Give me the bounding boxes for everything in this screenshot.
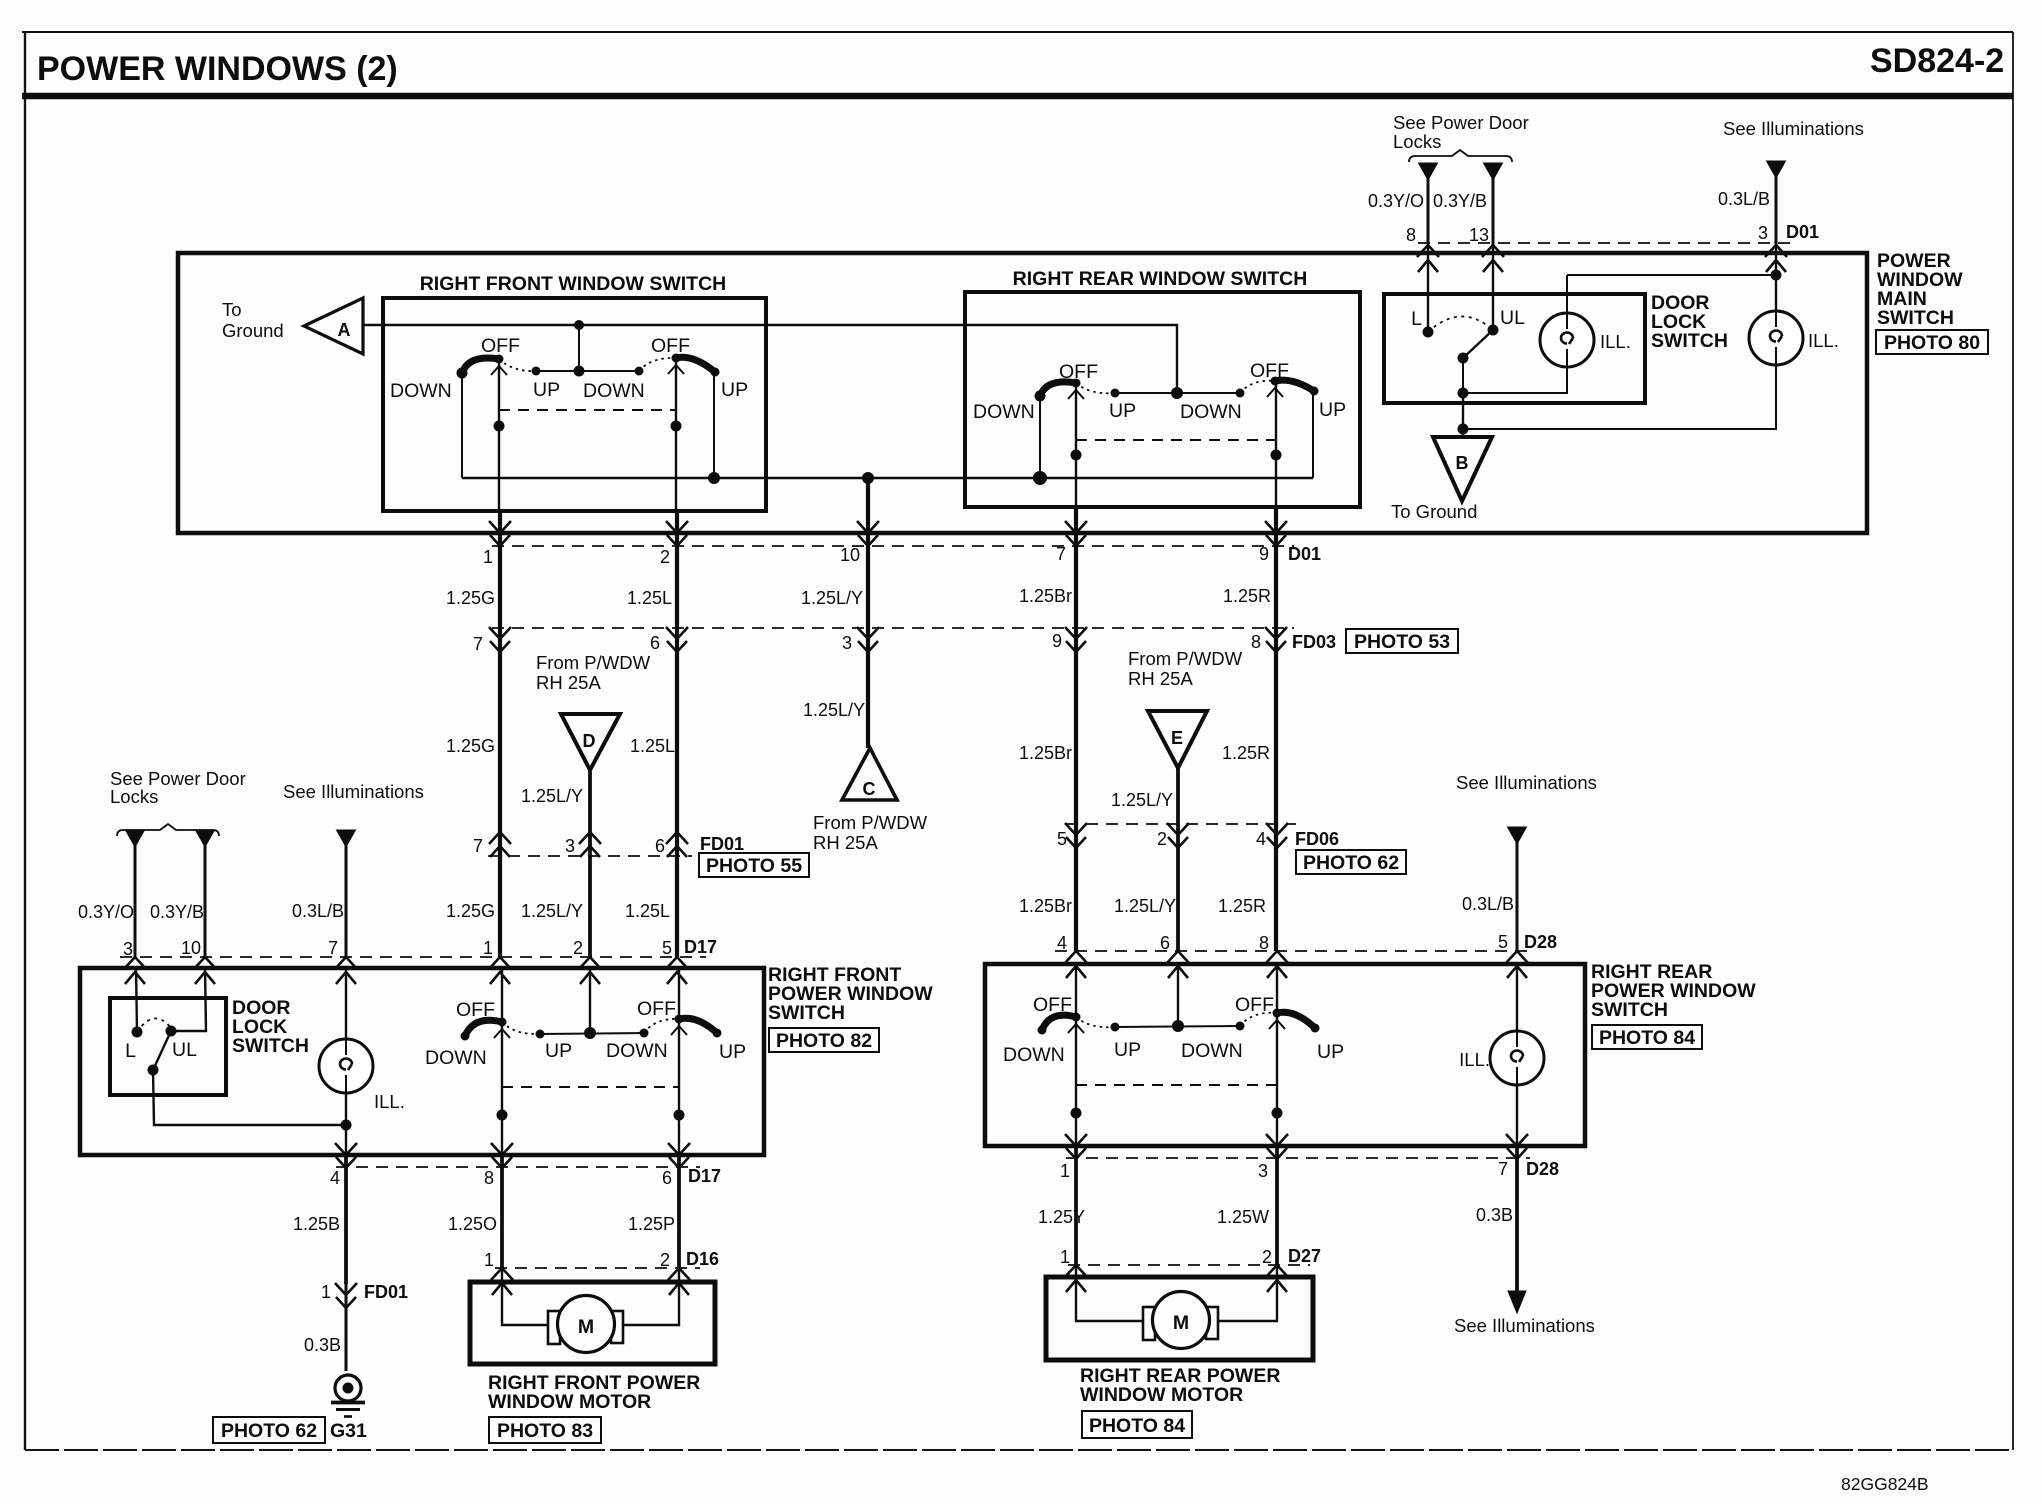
- svg-text:1.25L: 1.25L: [630, 736, 675, 756]
- wire pin2 inside box: [675, 358, 677, 511]
- right front power window switch box: [80, 968, 764, 1155]
- svg-text:D28: D28: [1526, 1159, 1559, 1179]
- junction triangle E: [1148, 711, 1207, 768]
- bottom rail both switches: [462, 477, 1313, 479]
- node ill feed / pin3: [1771, 270, 1782, 281]
- svg-text:0.3Y/B: 0.3Y/B: [1433, 191, 1487, 211]
- svg-text:6: 6: [655, 836, 665, 856]
- svg-text:OFF: OFF: [637, 998, 676, 1020]
- motor M2 brushes: [1143, 1307, 1155, 1340]
- wire OFF2 to pin 6: [678, 1019, 680, 1155]
- wire 0.3L/B to D17 pin 7: [345, 843, 348, 957]
- svg-text:OFF: OFF: [456, 999, 495, 1021]
- svg-text:82GG824B: 82GG824B: [1841, 1474, 1929, 1494]
- wire lamp1 top to ill feed: [1566, 275, 1568, 313]
- D27 chevrons: [1065, 1265, 1087, 1292]
- D28 top chevrons: [1065, 951, 1087, 978]
- RF window switch: UP contact 1: [532, 367, 541, 376]
- svg-text:2: 2: [1157, 829, 1167, 849]
- svg-text:D28: D28: [1524, 932, 1557, 952]
- lever end dot: [461, 1032, 470, 1041]
- PHOTO 53 box: [1346, 629, 1458, 653]
- mechanical link dashed RRPW: [1076, 1084, 1277, 1086]
- L contact (lower): [132, 1027, 143, 1038]
- svg-text:3: 3: [1758, 223, 1768, 243]
- PHOTO 82 box: [769, 1028, 879, 1052]
- svg-text:1: 1: [1060, 1247, 1070, 1267]
- wire 0.3Y/B to D01 pin 13: [1492, 176, 1495, 246]
- contact arrow 1: [491, 366, 507, 375]
- svg-text:1.25G: 1.25G: [446, 588, 495, 608]
- lever rest arc PW2 (dotted): [644, 1019, 679, 1033]
- mechanical link dashed RR: [1076, 439, 1276, 441]
- feed arrow mid right: [1508, 827, 1527, 844]
- wire pivot to lamp1: [1463, 358, 1567, 393]
- power window main switch outer box: [178, 253, 1867, 533]
- svg-text:7: 7: [473, 634, 483, 654]
- svg-text:ILL.: ILL.: [374, 1091, 405, 1112]
- svg-text:From P/WDW: From P/WDW: [1128, 648, 1243, 669]
- PW switch: OFF contact 2: [675, 1015, 684, 1024]
- svg-text:ILL.: ILL.: [1600, 331, 1631, 352]
- wire D01 pin 13 to UL contact: [1492, 246, 1494, 330]
- lever rest arc RR2 (dotted): [1240, 381, 1275, 393]
- svg-text:2: 2: [660, 547, 670, 567]
- svg-text:SWITCH: SWITCH: [1591, 999, 1668, 1021]
- link line between contacts: [536, 370, 639, 372]
- RR PW switch: OFF contact 2: [1273, 1009, 1282, 1018]
- svg-text:4: 4: [330, 1168, 340, 1188]
- ill lamp (lower right): [1490, 1031, 1544, 1085]
- LF power window switch: wire pin1 to OFF1: [501, 967, 503, 1022]
- connector row D28 (bottom) dashed: [1066, 1157, 1530, 1159]
- svg-text:OFF: OFF: [481, 335, 520, 357]
- lever rest arc RRPW1 (dotted): [1076, 1017, 1115, 1027]
- svg-text:1.25L/Y: 1.25L/Y: [1111, 790, 1173, 810]
- node on pin1 wire (RR): [1071, 1108, 1082, 1119]
- wire 0.3Y/O to D17 pin 3: [134, 843, 137, 957]
- D17 top chevrons: [124, 957, 146, 984]
- ill lamp 1 (main switch): [1540, 313, 1594, 367]
- svg-text:8: 8: [1251, 632, 1261, 652]
- svg-text:PHOTO 62: PHOTO 62: [221, 1420, 317, 1442]
- svg-text:1.25R: 1.25R: [1223, 586, 1271, 606]
- node below pivot: [1458, 388, 1469, 399]
- svg-text:3: 3: [1258, 1161, 1268, 1181]
- wire 1.25B: [344, 1155, 348, 1284]
- lever end dot RR: [1310, 387, 1319, 396]
- svg-text:D27: D27: [1288, 1246, 1321, 1266]
- svg-text:UL: UL: [1500, 307, 1525, 329]
- svg-text:OFF: OFF: [651, 335, 690, 357]
- svg-text:D16: D16: [686, 1249, 719, 1269]
- svg-text:DOWN: DOWN: [1181, 1040, 1243, 1062]
- ground G31 symbol: [331, 1375, 365, 1417]
- lever rest arc RR1 (dotted): [1076, 383, 1115, 393]
- lock arc (dashed): [1428, 316, 1493, 332]
- svg-text:6: 6: [662, 1168, 672, 1188]
- RR window switch: DOWN contact 1: [1035, 391, 1046, 402]
- RR window switch: DOWN contact 2: [1236, 389, 1245, 398]
- RF window switch: lever 2 (thick): [676, 357, 715, 372]
- ground triangle B: [1433, 437, 1492, 501]
- door lock switch box (lower): [110, 998, 226, 1095]
- svg-text:1.25R: 1.25R: [1218, 896, 1266, 916]
- lever rest arc PW1 (dotted): [502, 1022, 540, 1034]
- right rear window switch box: [965, 292, 1360, 507]
- svg-text:D01: D01: [1786, 222, 1819, 242]
- svg-text:UP: UP: [1317, 1041, 1344, 1063]
- svg-text:PHOTO 83: PHOTO 83: [497, 1420, 593, 1442]
- feed arrow (0.3Y/O): [1419, 163, 1438, 180]
- RR window switch: OFF contact 1: [1072, 379, 1081, 388]
- page border top: [22, 31, 2013, 33]
- svg-text:ILL.: ILL.: [1459, 1049, 1490, 1070]
- node on pin3 wire (RR): [1272, 1108, 1283, 1119]
- lever end dot PW2: [713, 1029, 722, 1038]
- svg-text:DOWN: DOWN: [1180, 401, 1242, 423]
- RR PW switch: wire pin8 to OFF2: [1276, 964, 1278, 1013]
- svg-text:To Ground: To Ground: [1391, 501, 1477, 522]
- wire ill feed bus: [1567, 274, 1776, 276]
- svg-text:See Illuminations: See Illuminations: [1723, 118, 1864, 139]
- riser from DOWN contact 1: [461, 373, 463, 478]
- svg-text:1.25Y: 1.25Y: [1038, 1207, 1085, 1227]
- wire pin5 to ill lamp: [1516, 964, 1518, 1031]
- wire D01 pin 8 to L contact: [1427, 246, 1429, 332]
- svg-text:M: M: [578, 1316, 594, 1338]
- svg-text:0.3B: 0.3B: [1476, 1205, 1513, 1225]
- svg-text:E: E: [1171, 728, 1183, 748]
- svg-text:ILL.: ILL.: [1808, 330, 1839, 351]
- motor M1 feed wires: [502, 1268, 679, 1325]
- riser lever end RR2 to rail: [1312, 391, 1314, 478]
- motor M1: [558, 1296, 615, 1353]
- svg-text:OFF: OFF: [1235, 994, 1274, 1016]
- svg-text:0.3Y/O: 0.3Y/O: [78, 902, 134, 922]
- mechanical link dashed: [499, 409, 676, 411]
- svg-text:Locks: Locks: [1393, 131, 1441, 152]
- contact arrow RR1: [1068, 390, 1084, 399]
- title separator bar: [22, 93, 2013, 100]
- svg-text:1.25L/Y: 1.25L/Y: [521, 786, 583, 806]
- svg-text:PHOTO 53: PHOTO 53: [1354, 631, 1450, 653]
- svg-text:3: 3: [123, 939, 133, 959]
- svg-text:5: 5: [1057, 829, 1067, 849]
- PW switch: DOWN contact 2: [640, 1029, 649, 1038]
- svg-text:1.25Br: 1.25Br: [1019, 896, 1072, 916]
- wire 1.25L vertical: [675, 511, 679, 957]
- svg-text:OFF: OFF: [1059, 361, 1098, 383]
- svg-text:POWER WINDOWS (2): POWER WINDOWS (2): [37, 50, 398, 88]
- svg-text:1: 1: [321, 1282, 331, 1302]
- svg-text:L: L: [125, 1040, 136, 1062]
- wire 1.25O: [500, 1155, 504, 1268]
- svg-text:UP: UP: [1109, 400, 1136, 422]
- wire 1.25L/Y vertical (to C): [866, 478, 870, 748]
- connector row FD01 dashed: [488, 855, 692, 857]
- ground triangle A: [304, 298, 363, 354]
- svg-text:1.25G: 1.25G: [446, 736, 495, 756]
- connector chevrons D01 top: [1417, 245, 1439, 272]
- wire 1.25P: [677, 1155, 681, 1268]
- svg-text:2: 2: [660, 1250, 670, 1270]
- svg-text:FD01: FD01: [364, 1282, 408, 1302]
- wire pin7 inside box: [1075, 383, 1077, 507]
- motor M2: [1153, 1292, 1210, 1349]
- connector row D17 (top) dashed: [120, 956, 706, 958]
- lever rest arc RRPW2 (dotted): [1240, 1013, 1277, 1026]
- feed arrow 0.3Y/B (left): [196, 830, 215, 847]
- svg-text:9: 9: [1259, 544, 1269, 564]
- svg-text:DOWN: DOWN: [973, 401, 1035, 423]
- RF window switch: OFF contact 1: [495, 355, 504, 364]
- right front power window motor box: [470, 1282, 715, 1364]
- wire 1.25L/Y from D: [588, 770, 592, 957]
- RF window switch: DOWN contact 1: [457, 368, 468, 379]
- riser RR DOWN1 to rail: [1039, 396, 1041, 478]
- RR PW switch: wire pin6 to center: [1177, 964, 1179, 1026]
- UL contact (lower): [166, 1026, 177, 1037]
- svg-text:PHOTO 55: PHOTO 55: [706, 855, 802, 877]
- svg-text:1: 1: [483, 938, 493, 958]
- lever pivot node (lower): [148, 1065, 159, 1076]
- FD06 chevrons: [1065, 823, 1087, 848]
- svg-text:7: 7: [1056, 544, 1066, 564]
- page border bottom: [25, 1449, 2013, 1451]
- svg-text:1.25Br: 1.25Br: [1019, 743, 1072, 763]
- svg-text:See Power Door: See Power Door: [1393, 112, 1529, 133]
- svg-text:0.3L/B: 0.3L/B: [1718, 189, 1770, 209]
- node rail/lever2: [708, 472, 720, 484]
- svg-text:0.3Y/B: 0.3Y/B: [150, 902, 204, 922]
- wire OFF2 to pin 3: [1276, 1013, 1278, 1146]
- svg-text:1.25L: 1.25L: [625, 901, 670, 921]
- riser from lever end 2: [713, 372, 715, 478]
- FD03 chevrons: [489, 627, 511, 652]
- svg-text:WINDOW MOTOR: WINDOW MOTOR: [488, 1391, 651, 1413]
- lever end dot: [711, 368, 720, 377]
- svg-text:UP: UP: [1114, 1039, 1141, 1061]
- wire lamp2 bottom to switch common: [1463, 365, 1776, 429]
- lock lever: [1463, 330, 1493, 358]
- svg-text:1.25L/Y: 1.25L/Y: [803, 700, 865, 720]
- wire 0.3B (to G31): [345, 1284, 348, 1371]
- motor M2 feed wires: [1076, 1265, 1277, 1321]
- svg-text:To: To: [222, 299, 242, 320]
- wire 1.25G vertical: [498, 511, 502, 957]
- svg-text:DOWN: DOWN: [1003, 1044, 1065, 1066]
- node on pin1 wire: [494, 421, 505, 432]
- svg-text:9: 9: [1052, 631, 1062, 651]
- svg-text:0.3L/B: 0.3L/B: [1462, 894, 1514, 914]
- PHOTO 62 box (FD06): [1296, 850, 1406, 874]
- right rear power window motor box: [1046, 1277, 1313, 1360]
- svg-text:UL: UL: [172, 1039, 197, 1061]
- wire 0.3L/B to D28 pin 5: [1516, 840, 1519, 951]
- LF power window switch: wire pin2 to center: [589, 967, 591, 1033]
- PHOTO 83 box: [489, 1417, 601, 1443]
- node RRPW center: [1172, 1020, 1184, 1032]
- connector row D01 (mid) dashed: [492, 545, 1294, 547]
- feed arrow (0.3Y/B): [1484, 163, 1503, 180]
- wire pivot to lamp return: [153, 1070, 346, 1125]
- connector FD01 (ground wire) chevrons: [335, 1283, 357, 1308]
- D28 bottom chevrons: [1065, 1134, 1087, 1159]
- feed arrow 0.3Y/O (left): [126, 830, 145, 847]
- ill lamp 2 (main switch): [1749, 311, 1803, 365]
- svg-text:See Illuminations: See Illuminations: [283, 781, 424, 802]
- svg-text:7: 7: [328, 938, 338, 958]
- svg-text:FD01: FD01: [700, 834, 744, 854]
- svg-text:4: 4: [1057, 933, 1067, 953]
- svg-text:SWITCH: SWITCH: [232, 1035, 309, 1057]
- svg-text:0.3Y/O: 0.3Y/O: [1368, 191, 1424, 211]
- output arrow See Illuminations: [1508, 1291, 1526, 1313]
- svg-text:UP: UP: [721, 379, 748, 401]
- svg-text:1: 1: [1060, 1161, 1070, 1181]
- svg-text:1.25G: 1.25G: [446, 901, 495, 921]
- svg-text:D17: D17: [688, 1166, 721, 1186]
- PW switch: lever 2 (thick): [679, 1018, 717, 1033]
- connector row FD06 dashed: [1066, 823, 1296, 825]
- svg-text:8: 8: [1259, 933, 1269, 953]
- PW switch: lever 1 (thick): [465, 1020, 502, 1036]
- wire 1.25Br vertical: [1074, 507, 1078, 951]
- brace (top right): [1409, 150, 1512, 162]
- wire switch common down: [1462, 393, 1464, 437]
- svg-text:13: 13: [1469, 225, 1489, 245]
- svg-text:UP: UP: [545, 1040, 572, 1062]
- brace (left): [117, 824, 219, 836]
- PHOTO 84 box (motor): [1082, 1411, 1192, 1438]
- svg-text:D: D: [583, 731, 596, 751]
- node on pin6 wire: [674, 1110, 685, 1121]
- contact arrow 2: [668, 365, 684, 374]
- connector row D27 dashed: [1068, 1264, 1310, 1266]
- node lamp return: [341, 1120, 352, 1131]
- svg-text:3: 3: [565, 836, 575, 856]
- svg-text:Locks: Locks: [110, 786, 158, 807]
- node on pin7 wire: [1071, 450, 1082, 461]
- svg-text:2: 2: [573, 938, 583, 958]
- mechanical link dashed PW: [502, 1086, 679, 1088]
- svg-text:1.25R: 1.25R: [1222, 743, 1270, 763]
- RR window switch: UP contact 1: [1111, 389, 1120, 398]
- PHOTO 62 box (G31): [213, 1417, 325, 1443]
- contact arrow RRPW1: [1068, 1024, 1084, 1033]
- wire 1.25R vertical: [1274, 507, 1278, 951]
- PW switch: UP contact 1: [536, 1030, 545, 1039]
- svg-text:8: 8: [484, 1168, 494, 1188]
- wire lamp bottom to pin 4: [345, 1093, 347, 1155]
- RF window switch: lever 1 (thick): [462, 358, 499, 373]
- svg-text:See Illuminations: See Illuminations: [1456, 772, 1597, 793]
- svg-text:7: 7: [1498, 1159, 1508, 1179]
- RR window switch: lever 1 (thick): [1040, 382, 1076, 396]
- connector row D28 (top) dashed: [1055, 950, 1535, 952]
- svg-text:1.25O: 1.25O: [448, 1214, 497, 1234]
- svg-text:PHOTO 84: PHOTO 84: [1089, 1415, 1185, 1437]
- link line PW: [540, 1033, 644, 1034]
- RR window switch: OFF contact 2: [1271, 377, 1280, 386]
- svg-text:OFF: OFF: [1250, 360, 1289, 382]
- node RR common junction: [1171, 387, 1183, 399]
- svg-text:RH 25A: RH 25A: [536, 672, 601, 693]
- svg-text:SWITCH: SWITCH: [1651, 330, 1728, 352]
- wire: A common to both window switches: [363, 325, 1177, 393]
- wire 1.25W: [1275, 1146, 1279, 1265]
- FD01 chevrons: [489, 832, 511, 857]
- RR PW switch: UP contact 1: [1111, 1023, 1120, 1032]
- svg-text:4: 4: [1256, 829, 1266, 849]
- wire 0.3Y/O to D01 pin 8: [1427, 176, 1430, 246]
- svg-text:D17: D17: [684, 937, 717, 957]
- junction triangle D: [561, 714, 620, 770]
- node PW center: [584, 1027, 596, 1039]
- wire 0.3B (right): [1515, 1146, 1519, 1295]
- svg-text:1.25L/Y: 1.25L/Y: [1114, 896, 1176, 916]
- svg-text:OFF: OFF: [1033, 994, 1072, 1016]
- wire 0.3L/B to D01 pin 3: [1775, 174, 1778, 246]
- svg-text:1.25Br: 1.25Br: [1019, 586, 1072, 606]
- contact arrow PW1: [494, 1029, 510, 1038]
- node on pin2 wire: [671, 421, 682, 432]
- svg-text:WINDOW MOTOR: WINDOW MOTOR: [1080, 1384, 1243, 1406]
- svg-text:1.25L/Y: 1.25L/Y: [801, 588, 863, 608]
- lock arc dashed (lower): [137, 1018, 171, 1032]
- UL contact: [1488, 325, 1499, 336]
- svg-text:UP: UP: [1319, 399, 1346, 421]
- RF window switch: DOWN contact 2: [635, 367, 644, 376]
- svg-text:See Illuminations: See Illuminations: [1454, 1315, 1595, 1336]
- svg-text:0.3L/B: 0.3L/B: [292, 901, 344, 921]
- svg-text:DOWN: DOWN: [390, 380, 452, 402]
- node on pin8 wire: [497, 1110, 508, 1121]
- wire pin10 to UL contact: [171, 967, 206, 1031]
- RR PW switch: lever 1 (thick): [1042, 1015, 1076, 1030]
- lever end dot RRPW2: [1311, 1024, 1320, 1033]
- svg-text:6: 6: [650, 633, 660, 653]
- contact arrow RR2: [1267, 388, 1283, 397]
- wire lamp to pin 7: [1516, 1085, 1518, 1146]
- L contact: [1423, 327, 1434, 338]
- lever pivot node: [1458, 353, 1469, 364]
- contact arrow RRPW2: [1269, 1020, 1285, 1029]
- PHOTO 80 box: [1876, 330, 1988, 354]
- svg-text:PHOTO 62: PHOTO 62: [1303, 852, 1399, 874]
- feed arrow (0.3L/B): [1767, 161, 1786, 178]
- motor M1 brushes: [548, 1311, 560, 1344]
- PHOTO 55 box: [699, 853, 809, 877]
- svg-text:PHOTO 82: PHOTO 82: [776, 1030, 872, 1052]
- svg-text:1.25W: 1.25W: [1217, 1207, 1269, 1227]
- link line RRPW: [1115, 1026, 1240, 1027]
- svg-text:10: 10: [840, 545, 860, 565]
- svg-text:DOWN: DOWN: [606, 1040, 668, 1062]
- RR PW switch: wire pin4 to OFF1: [1075, 964, 1077, 1017]
- link line RR: [1115, 392, 1240, 394]
- svg-text:B: B: [1456, 453, 1469, 473]
- contact arrow PW2: [671, 1026, 687, 1035]
- connector row D01 (top) dashed: [1418, 242, 1790, 244]
- PHOTO 84 box (switch): [1592, 1025, 1702, 1049]
- svg-text:1.25P: 1.25P: [628, 1214, 675, 1234]
- node: RF switch common junction: [574, 320, 584, 330]
- svg-text:UP: UP: [533, 379, 560, 401]
- wire pin1 inside box: [498, 359, 500, 511]
- wire pin3 down to lamp2: [1775, 246, 1777, 311]
